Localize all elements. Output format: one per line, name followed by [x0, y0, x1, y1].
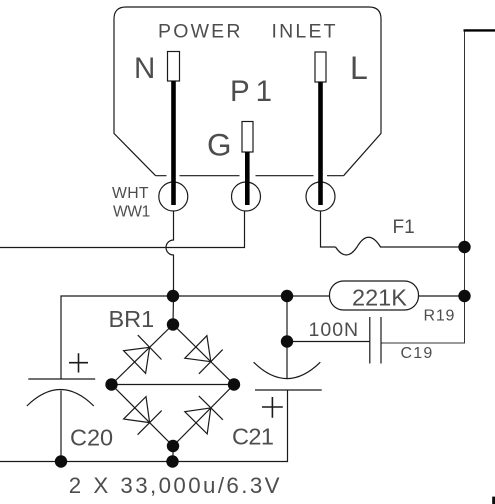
svg-text:L: L [350, 50, 368, 86]
wire: top right to edge [464, 29, 495, 31]
wire: C21 to bottom rail [0, 390, 288, 462]
svg-text:N: N [134, 52, 155, 85]
capacitor C20 straight plate [28, 378, 95, 380]
resistor R19 pill [330, 281, 419, 310]
diode D1 top-left [124, 335, 162, 373]
junction dot rail below BR1 [166, 455, 178, 467]
bridge BR1 middle wire [112, 384, 235, 386]
wire: L pin to fuse [321, 211, 336, 247]
svg-text:G: G [207, 127, 232, 163]
junction dot BR1 bottom vertex [167, 440, 179, 452]
wire: fuse to right rail [380, 246, 465, 248]
junction dot node row / C21 branch [281, 290, 293, 302]
pin N blade [171, 81, 176, 205]
pin G blade [245, 152, 250, 205]
fuse F1 [336, 237, 381, 255]
wire: C20 to bottom rail [60, 391, 62, 462]
svg-text:INLET: INLET [272, 21, 338, 43]
diode D2 top-right [185, 336, 223, 374]
junction dot node row / BR1 top [167, 290, 179, 302]
wire: main node row [61, 296, 331, 379]
junction dot F1/right rail [458, 241, 470, 253]
svg-text:F1: F1 [393, 217, 415, 238]
capacitor C20 plus sign [69, 353, 88, 372]
svg-text:BR1: BR1 [109, 306, 155, 332]
svg-text:R19: R19 [424, 308, 456, 325]
capacitor C21 straight plate [255, 389, 322, 391]
capacitor C21 curved plate [254, 362, 321, 378]
pin N terminal rectangle [168, 52, 180, 82]
bridge BR1 diamond edges [112, 325, 235, 447]
svg-text:WHT: WHT [112, 185, 149, 202]
junction dot BR1 left vertex [105, 378, 117, 390]
junction dot BR1 right vertex [228, 378, 240, 390]
capacitor C21 plus sign [262, 397, 283, 418]
corner fragment glyph [492, 497, 495, 504]
pin L terminal rectangle [315, 52, 326, 82]
svg-text:100N: 100N [309, 319, 360, 341]
wire: BR1 bottom to rail [172, 446, 174, 462]
diode D3 bottom-left [124, 397, 162, 435]
wire: N pin down with hop over rail [166, 211, 173, 325]
junction dot rail below C20 [55, 455, 67, 467]
pin L blade [318, 82, 323, 205]
wire: C19 left lead [287, 341, 370, 343]
pin circle N [159, 182, 188, 211]
connector bottom edge segments [156, 175, 344, 177]
svg-text:POWER: POWER [158, 21, 243, 43]
connector P1 outline [114, 7, 381, 176]
svg-text:C19: C19 [401, 345, 434, 362]
right rail vertical [381, 30, 465, 343]
pin circle G [232, 182, 261, 211]
wire: left rail to G pin [0, 211, 245, 248]
svg-text:C21: C21 [232, 424, 273, 450]
diode D4 bottom-right [185, 396, 223, 434]
wire: node to C21/C19 branch [286, 296, 288, 379]
wire: R19 right lead [419, 295, 465, 297]
svg-text:221K: 221K [352, 284, 407, 310]
pin G terminal rectangle [242, 122, 253, 153]
svg-text:C20: C20 [70, 424, 113, 450]
junction dot BR1 top vertex [167, 318, 179, 330]
pin circle L [306, 182, 335, 211]
junction dot C19/C21 branch [281, 335, 293, 347]
svg-text:WW1: WW1 [113, 204, 150, 221]
svg-text:2 X 33,000u/6.3V: 2 X 33,000u/6.3V [69, 473, 282, 498]
capacitor C19 plates [370, 317, 381, 364]
capacitor C20 curved plate [27, 390, 94, 407]
junction dot R19/right rail [458, 290, 470, 302]
svg-text:P1: P1 [230, 75, 278, 108]
